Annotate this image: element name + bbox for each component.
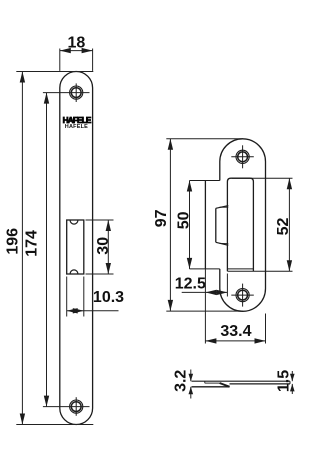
- screw hole bottom (right view): [231, 284, 254, 307]
- profile right end: [289, 381, 291, 384]
- Hafele logo: [63, 116, 92, 130]
- latch opening (right view, 52 high, rounded top corners): [227, 178, 253, 271]
- opening bottom edge / 52 extension bottom: [227, 270, 292, 272]
- svg-text:196: 196: [5, 228, 22, 255]
- profile section bottom line right (1.5 thick): [230, 383, 291, 385]
- svg-text:33.4: 33.4: [220, 323, 251, 340]
- svg-text:3.2: 3.2: [172, 370, 189, 392]
- cutout bottom relief arc: [70, 270, 78, 274]
- latch cutout (left view, 10.3x30): [67, 220, 84, 274]
- svg-text:174: 174: [23, 230, 40, 257]
- screw hole top (right view): [231, 145, 254, 168]
- opening top edge / 52 extension top: [232, 177, 292, 179]
- dimension 52 (opening height): [288, 178, 290, 271]
- dimension 18 (plate width): [60, 49, 93, 71]
- svg-text:30: 30: [95, 237, 112, 255]
- profile section top line: [192, 380, 291, 382]
- dimension 50 (strike box height): [189, 181, 191, 269]
- strike plate outline (right view, 33.4x97 stadium plate): [220, 139, 266, 312]
- latch tongue lip: [216, 206, 229, 246]
- dimension 97 (right plate length): [166, 139, 243, 311]
- svg-text:52: 52: [275, 218, 292, 236]
- svg-text:50: 50: [175, 211, 192, 229]
- screw hole top (left view): [70, 83, 83, 102]
- screw hole bottom (left view): [70, 397, 83, 416]
- profile tongue fold detail: [205, 381, 230, 387]
- dimension 174 (hole centres distance): [43, 93, 90, 407]
- faceplate outline (left view, 18x196 stadium plate): [60, 72, 93, 425]
- svg-text:10.3: 10.3: [93, 289, 124, 306]
- dimension 10.3 (cutout width): [67, 277, 119, 317]
- strike box bottom edge / 50 extension bottom: [190, 268, 254, 270]
- cutout top relief arc: [70, 220, 78, 224]
- dimension 1.5 (plate thickness): [291, 371, 293, 394]
- dimension 33.4 (overall width with box): [205, 269, 265, 344]
- strike box top edge / 50 extension top: [190, 180, 220, 182]
- svg-text:97: 97: [153, 209, 170, 227]
- svg-text:18: 18: [68, 35, 86, 52]
- svg-text:1.5: 1.5: [276, 370, 293, 392]
- strike box left edge: [204, 181, 206, 269]
- dimension 3.2 (lip thickness): [190, 370, 192, 399]
- dimension 30 (cutout height): [86, 220, 114, 274]
- dimension 196 (overall length): [16, 72, 93, 425]
- svg-text:12.5: 12.5: [175, 276, 206, 293]
- dimension 12.5 (box edge to opening): [182, 274, 228, 297]
- svg-text:HAFELE: HAFELE: [65, 124, 88, 130]
- profile section bottom line left (3.2 thick): [192, 386, 230, 388]
